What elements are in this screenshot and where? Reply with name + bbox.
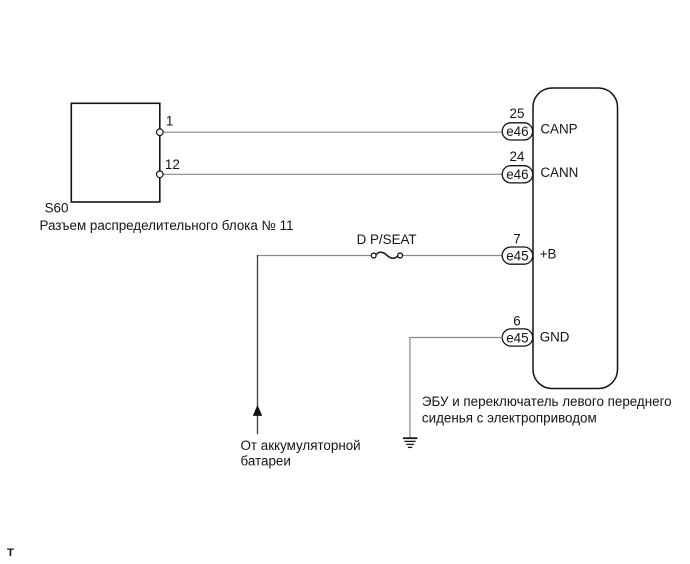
svg-text:e45: e45 (506, 330, 528, 345)
svg-text:От аккумуляторной: От аккумуляторной (241, 438, 361, 453)
wire fuse to e45 pin7 (403, 255, 502, 257)
svg-text:7: 7 (513, 232, 520, 247)
label S60 (45, 201, 69, 216)
svg-text:e46: e46 (506, 124, 528, 139)
fuse D P/SEAT (371, 252, 402, 258)
connector e46 pin 25 (502, 123, 533, 140)
arrow from battery (253, 405, 262, 416)
svg-text:GND: GND (540, 330, 570, 345)
fuse label D P/SEAT (357, 232, 417, 247)
net label CANN (540, 165, 578, 180)
label батареи (241, 453, 291, 468)
wire battery riser (257, 255, 259, 434)
wire e45 pin6 to ground (410, 338, 502, 438)
pin number 25 (510, 106, 525, 121)
svg-text:сиденья с электроприводом: сиденья с электроприводом (422, 410, 597, 425)
svg-text:S60: S60 (45, 201, 69, 216)
connector e45 pin 6 (502, 329, 533, 346)
footer text т (7, 547, 14, 559)
net label CANP (540, 122, 577, 137)
net label GND (540, 330, 570, 345)
connector block S60 (71, 103, 160, 202)
svg-text:24: 24 (510, 149, 525, 164)
svg-text:CANN: CANN (540, 165, 578, 180)
S60 pin 12 terminal (157, 171, 164, 178)
wire pin12 to e46 pin24 (160, 173, 502, 175)
ECU block outline (533, 88, 618, 389)
svg-text:e45: e45 (506, 248, 528, 263)
svg-text:6: 6 (513, 313, 520, 328)
svg-text:+B: +B (540, 247, 557, 262)
svg-text:Т: Т (7, 547, 14, 559)
pin label 1 (166, 113, 173, 128)
svg-text:CANP: CANP (540, 122, 577, 137)
pin number 24 (510, 149, 525, 164)
svg-text:25: 25 (510, 106, 525, 121)
svg-text:D P/SEAT: D P/SEAT (357, 232, 417, 247)
svg-text:Разъем распределительного блок: Разъем распределительного блока № 11 (40, 218, 294, 233)
label От аккумуляторной (241, 438, 361, 453)
label сиденья с электроприводом (422, 410, 597, 425)
label ЭБУ и переключатель левого переднего (422, 394, 672, 409)
S60 pin 1 terminal (157, 129, 164, 136)
net label +B (540, 247, 557, 262)
pin label 12 (165, 157, 180, 172)
connector e45 pin 7 (502, 247, 533, 264)
pin number 7 (513, 232, 520, 247)
wire battery node to fuse (258, 255, 371, 257)
label Разъем распределительного блока № 11 (40, 218, 294, 233)
wire pin1 to e46 pin25 (160, 131, 502, 133)
svg-text:ЭБУ и переключатель левого пер: ЭБУ и переключатель левого переднего (422, 394, 672, 409)
svg-text:1: 1 (166, 113, 173, 128)
svg-text:батареи: батареи (241, 453, 291, 468)
svg-text:e46: e46 (506, 167, 528, 182)
svg-text:12: 12 (165, 157, 180, 172)
ground symbol (403, 438, 417, 447)
connector e46 pin 24 (502, 166, 533, 183)
pin number 6 (513, 313, 520, 328)
